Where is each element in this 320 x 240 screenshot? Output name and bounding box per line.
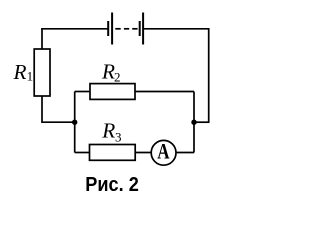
wire ammeter to right junction	[176, 152, 194, 154]
svg-text:R: R	[12, 60, 26, 84]
battery GB1 cell2 long plate	[142, 13, 144, 45]
wire right vertical	[208, 28, 210, 122]
wire R3 to ammeter	[135, 152, 152, 154]
svg-text:2: 2	[114, 70, 121, 85]
wire right junction vertical	[193, 92, 195, 153]
battery GB1 cell2 short plate	[139, 21, 141, 36]
battery GB1 cell1 long plate	[111, 13, 113, 45]
node left junction	[72, 120, 77, 125]
wire R3 branch left	[75, 152, 90, 154]
wire R2 branch left	[75, 91, 91, 93]
wire right stub to junction	[194, 121, 210, 123]
wire top-left horizontal	[41, 28, 107, 30]
wire top-right horizontal	[144, 28, 210, 30]
svg-text:Рис. 2: Рис. 2	[85, 174, 139, 195]
svg-text:3: 3	[115, 129, 122, 144]
node right junction	[191, 120, 196, 125]
resistor R1 box	[34, 49, 50, 96]
resistor R2 box	[90, 84, 135, 100]
battery GB1 cell1 short plate	[107, 21, 109, 36]
svg-text:R: R	[101, 119, 115, 143]
wire left vertical down to R1	[41, 28, 43, 50]
ammeter A circle	[151, 140, 176, 165]
resistor R3 box	[90, 145, 136, 161]
wire left junction vertical	[74, 92, 76, 153]
wire dashed battery link	[115, 28, 137, 30]
svg-text:1: 1	[27, 69, 33, 84]
svg-text:A: A	[157, 138, 169, 163]
wire R2 branch right	[135, 91, 194, 93]
wire R1 bottom	[42, 96, 75, 122]
